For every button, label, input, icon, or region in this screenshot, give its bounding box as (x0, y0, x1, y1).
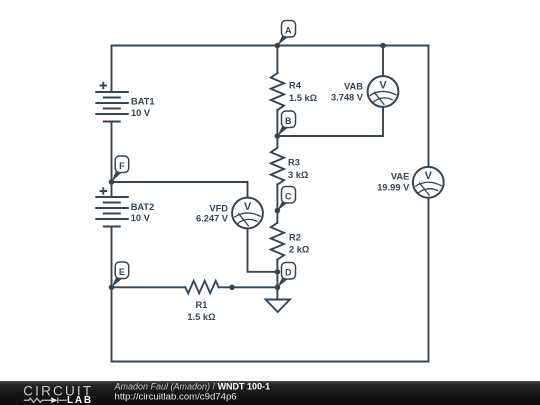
svg-text:2 kΩ: 2 kΩ (289, 245, 310, 255)
svg-text:http://circuitlab.com/c9d74p6: http://circuitlab.com/c9d74p6 (115, 391, 237, 402)
svg-text:V: V (244, 201, 252, 213)
svg-text:10 V: 10 V (131, 108, 151, 118)
svg-text:R4: R4 (289, 80, 302, 90)
svg-text:3.748 V: 3.748 V (331, 93, 364, 103)
svg-text:1.5 kΩ: 1.5 kΩ (289, 93, 318, 103)
svg-text:BAT1: BAT1 (131, 97, 155, 107)
svg-text:10 V: 10 V (131, 213, 151, 223)
svg-text:19.99 V: 19.99 V (377, 182, 410, 192)
svg-text:VFD: VFD (209, 203, 228, 213)
svg-text:R1: R1 (196, 300, 208, 310)
svg-text:F: F (119, 161, 125, 171)
svg-text:E: E (119, 267, 125, 277)
svg-text:1.5 kΩ: 1.5 kΩ (187, 312, 216, 322)
svg-text:A: A (285, 25, 292, 35)
svg-text:6.247 V: 6.247 V (196, 214, 229, 224)
svg-text:LAB: LAB (67, 395, 93, 405)
svg-text:D: D (285, 267, 292, 277)
svg-text:VAE: VAE (391, 172, 409, 182)
svg-text:B: B (285, 116, 292, 126)
svg-text:C: C (285, 191, 292, 201)
svg-text:VAB: VAB (344, 82, 363, 92)
svg-text:V: V (379, 79, 387, 91)
svg-text:BAT2: BAT2 (131, 202, 155, 212)
svg-text:V: V (425, 170, 433, 182)
svg-text:R2: R2 (289, 232, 301, 242)
svg-text:R3: R3 (288, 158, 300, 168)
svg-text:3 kΩ: 3 kΩ (288, 170, 309, 180)
svg-text:Amadon Faul (Amadon) / WNDT 10: Amadon Faul (Amadon) / WNDT 100-1 (114, 382, 271, 392)
